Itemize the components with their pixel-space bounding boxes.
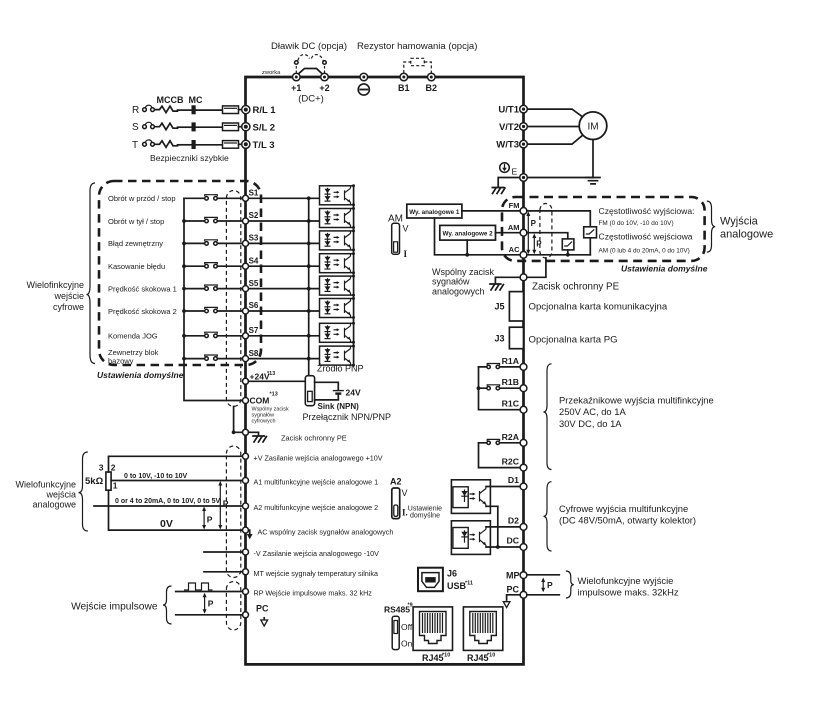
- battery 24V: [333, 390, 344, 392]
- terminal PE node: [520, 274, 527, 281]
- arrow AC down: [249, 530, 250, 533]
- svg-text:sygnałów: sygnałów: [432, 277, 470, 287]
- svg-text:30V DC, do 1A: 30V DC, do 1A: [559, 418, 622, 429]
- terminal S/L2: [242, 123, 250, 131]
- svg-text:R1B: R1B: [502, 377, 519, 387]
- section digital inputs: [26, 181, 319, 434]
- svg-text:V: V: [402, 488, 408, 498]
- wire pot pin3 to +V: [109, 456, 243, 472]
- svg-text:V/T2: V/T2: [499, 122, 519, 133]
- pulse waveform: [184, 583, 213, 590]
- svg-text:P: P: [531, 219, 537, 228]
- svg-text:S8: S8: [249, 349, 259, 358]
- svg-text:COM: COM: [250, 396, 270, 406]
- terminal B2: [428, 73, 436, 81]
- wire D1: [486, 486, 520, 488]
- wire -V stub: [204, 551, 243, 553]
- arrow P pulse: [204, 595, 206, 613]
- terminal V/T2: [520, 123, 528, 131]
- arrow P AM-AC: [533, 236, 535, 253]
- svg-text:T/L 3: T/L 3: [253, 140, 275, 151]
- svg-text:I: I: [404, 249, 408, 259]
- wire MP right: [527, 574, 559, 576]
- svg-text:impulsowe maks. 32kHz: impulsowe maks. 32kHz: [578, 587, 679, 598]
- terminal +1: [293, 73, 301, 81]
- terminal +V: [243, 453, 249, 459]
- relay R1 contacts: [477, 364, 521, 410]
- svg-text:PC: PC: [506, 584, 519, 594]
- brace digital outputs: [544, 482, 552, 551]
- svg-text:+V Zasilanie wejścia analogowe: +V Zasilanie wejścia analogowego +10V: [254, 454, 383, 463]
- wire DC: [486, 546, 520, 548]
- terminal B1: [400, 73, 408, 81]
- svg-text:*13: *13: [267, 371, 275, 377]
- brace analog outputs: [707, 201, 715, 252]
- opto-isolator input S1: [320, 184, 356, 206]
- svg-text:Kasowanie błędu: Kasowanie błędu: [108, 262, 165, 271]
- opto-isolator input S2: [320, 207, 356, 229]
- wire D2: [486, 526, 520, 528]
- switch input S2 row: [108, 211, 320, 226]
- svg-text:cyfrowe: cyfrowe: [53, 302, 84, 312]
- terminal MT: [243, 569, 249, 575]
- motor IM: [579, 112, 607, 140]
- wire PE node to ground: [495, 277, 520, 283]
- svg-text:A1 multifunkcyjne wejście anal: A1 multifunkcyjne wejście analogowe 1: [254, 478, 379, 487]
- terminal PC right: [520, 591, 527, 598]
- svg-text:RJ45: RJ45: [422, 653, 444, 663]
- potentiometer 5k: [106, 472, 111, 490]
- wire PC right: [527, 594, 559, 596]
- terminal R2A: [520, 439, 527, 446]
- terminal S4: [243, 263, 249, 269]
- svg-text:USB: USB: [447, 581, 467, 591]
- svg-text:Opcjonalna karta PG: Opcjonalna karta PG: [529, 335, 618, 346]
- svg-text:*10: *10: [442, 653, 450, 659]
- wire V to motor: [528, 126, 580, 128]
- section analog out: [388, 197, 773, 296]
- phase R input row: [132, 105, 276, 116]
- brace pulse output: [566, 571, 574, 598]
- meter AM: [562, 239, 574, 250]
- svg-text:+1: +1: [291, 83, 301, 93]
- shield capsule analog in: [226, 446, 240, 577]
- wire motor ground: [592, 140, 594, 178]
- svg-text:A2: A2: [390, 477, 402, 487]
- wire box1 emitter to DC bus: [486, 506, 498, 547]
- terminal AM: [520, 229, 527, 236]
- wire AC inside: [527, 254, 590, 256]
- wire E row: [498, 178, 593, 188]
- opto-isolator input S4: [320, 252, 356, 274]
- svg-text:0 to 10V, -10 to 10V: 0 to 10V, -10 to 10V: [124, 473, 187, 480]
- terminal AC: [520, 251, 527, 258]
- terminal S2: [243, 218, 249, 224]
- svg-text:Opcjonalna karta komunikacyjna: Opcjonalna karta komunikacyjna: [529, 302, 668, 313]
- svg-text:Bezpieczniki szybkie: Bezpieczniki szybkie: [150, 153, 229, 163]
- terminal DC: [520, 544, 527, 551]
- wire box2 drop to AC: [466, 240, 468, 255]
- svg-text:B1: B1: [398, 83, 410, 93]
- svg-text:Źródło PNP: Źródło PNP: [317, 364, 364, 374]
- svg-text:R1C: R1C: [502, 399, 520, 409]
- svg-text:-V Zasilanie wejścia analogowe: -V Zasilanie wejścia analogowego -10V: [254, 549, 380, 558]
- svg-text:R2A: R2A: [502, 432, 520, 442]
- meter FM: [584, 227, 597, 238]
- phase S input row: [132, 122, 275, 133]
- arrow P MP-PC: [542, 580, 544, 591]
- svg-text:On: On: [401, 639, 413, 649]
- switch input S3 row: [108, 234, 320, 249]
- switch input S5 row: [108, 279, 320, 294]
- svg-text:AM: AM: [508, 223, 520, 232]
- svg-text:Obrót w tył / stop: Obrót w tył / stop: [108, 217, 164, 226]
- ground terminal symbol: [500, 163, 510, 173]
- svg-text:analogowe: analogowe: [32, 500, 76, 510]
- svg-text:R2C: R2C: [502, 457, 520, 467]
- svg-text:*13: *13: [270, 392, 278, 398]
- wire box1 drop to AC: [435, 218, 521, 255]
- terminal T/L3: [242, 140, 250, 148]
- svg-text:P: P: [207, 515, 213, 525]
- svg-text:Wielofunkcyjne wyjście: Wielofunkcyjne wyjście: [578, 575, 674, 586]
- svg-text:Zacisk ochronny PE: Zacisk ochronny PE: [281, 434, 347, 443]
- svg-text:RP Wejście impulsowe maks. 32: RP Wejście impulsowe maks. 32 kHz: [254, 589, 373, 598]
- svg-text:S/L 2: S/L 2: [253, 122, 276, 133]
- svg-text:Off: Off: [401, 622, 413, 632]
- svg-text:(DC 48V/50mA, otwarty kolektor: (DC 48V/50mA, otwarty kolektor): [559, 515, 696, 526]
- section opto bank: [309, 184, 364, 375]
- svg-text:Wy. analogowe 1: Wy. analogowe 1: [409, 209, 460, 216]
- connector J5: [509, 292, 523, 321]
- section J5 J3 relays: [477, 292, 714, 471]
- ground PE analog: [490, 284, 503, 290]
- svg-text:S4: S4: [249, 256, 259, 265]
- terminal A2: [243, 503, 249, 509]
- connector J3: [509, 327, 523, 349]
- section analog in: [15, 446, 442, 578]
- section inputs RST: [132, 95, 276, 163]
- svg-text:24V: 24V: [346, 387, 361, 397]
- wire switch to battery loop: [315, 382, 339, 400]
- wire shield drain to PE node: [527, 258, 546, 277]
- terminal minus: [360, 73, 368, 81]
- svg-text:Prędkość skokowa 2: Prędkość skokowa 2: [108, 307, 177, 316]
- wire PC left arrow: [507, 595, 520, 600]
- svg-text:J3: J3: [494, 334, 504, 344]
- breaker MCCB R: [155, 106, 178, 113]
- svg-text:DC: DC: [506, 536, 519, 546]
- wire RP: [176, 591, 243, 593]
- opto-isolator input S3: [320, 229, 356, 251]
- wire AM inside to meter: [527, 233, 568, 239]
- svg-text:2: 2: [111, 462, 116, 472]
- svg-text:MCCB: MCCB: [157, 95, 184, 105]
- terminal R1C: [520, 406, 527, 413]
- switch input S1 row: [108, 189, 320, 204]
- svg-text:MT wejście sygnały temperatury: MT wejście sygnały temperatury silnika: [254, 569, 379, 578]
- terminal COM: [243, 398, 249, 404]
- opto-isolator output D1: [451, 480, 490, 514]
- svg-text:Cyfrowe wyjścia multifunkcyjne: Cyfrowe wyjścia multifunkcyjne: [559, 503, 688, 514]
- svg-text:S1: S1: [249, 189, 259, 198]
- terminal R2C: [520, 464, 527, 471]
- section digital out: [451, 475, 696, 554]
- opto-isolator input S6: [320, 297, 356, 319]
- opto-isolator output D2: [451, 521, 490, 555]
- svg-text:wejście: wejście: [53, 291, 84, 301]
- connector J6 USB: [418, 568, 443, 592]
- svg-text:P: P: [547, 580, 553, 590]
- relay R2 contacts: [479, 439, 521, 467]
- svg-text:*10: *10: [487, 653, 495, 659]
- svg-text:MC: MC: [189, 95, 203, 105]
- svg-text:Częstotliwość wejściowa: Częstotliwość wejściowa: [599, 231, 693, 241]
- switch input S7 row: [108, 326, 320, 341]
- svg-text:PC: PC: [256, 604, 269, 614]
- svg-text:3: 3: [99, 462, 104, 472]
- terminal S7: [243, 333, 249, 339]
- terminal MP: [520, 572, 527, 579]
- section pulse: [71, 582, 372, 630]
- terminal R/L1: [242, 106, 250, 114]
- section comm: [384, 568, 679, 663]
- svg-text:Częstotliwość wyjściowa:: Częstotliwość wyjściowa:: [599, 206, 695, 216]
- section top: [262, 41, 477, 105]
- svg-text:V: V: [403, 224, 409, 234]
- svg-text:E: E: [512, 167, 518, 177]
- svg-text:S: S: [132, 122, 139, 133]
- terminal FM: [520, 208, 527, 215]
- box Wy. analogowe 1: [407, 204, 462, 218]
- shield capsule pulse: [226, 582, 240, 630]
- opto-isolator input S8: [320, 345, 356, 367]
- wire AM from box2: [496, 232, 521, 234]
- brace digital inputs: [87, 183, 96, 364]
- svg-text:T: T: [132, 140, 138, 151]
- svg-text:FM: FM: [509, 201, 520, 210]
- wire FM from box1: [462, 210, 520, 212]
- svg-text:AM (0 lub 4 do 20mA, 0 do 10V): AM (0 lub 4 do 20mA, 0 do 10V): [599, 248, 690, 255]
- wire pot pin1 to AC: [109, 490, 243, 530]
- arrow PC open: [263, 618, 265, 620]
- wire shield drain to PE: [234, 407, 243, 433]
- wire opto right collector bus: [353, 186, 355, 365]
- wire S-input common bus: [184, 198, 243, 400]
- section sink source: [243, 371, 392, 443]
- wire W to motor: [528, 135, 584, 145]
- svg-text:analogowych: analogowych: [432, 286, 485, 296]
- wire +24V to switch: [249, 380, 306, 382]
- contactor MC R: [178, 109, 192, 111]
- arrow P A2-0V: [203, 509, 205, 528]
- svg-text:J6: J6: [447, 569, 457, 579]
- fuse R: [223, 106, 239, 114]
- ground motor earth: [586, 178, 600, 184]
- svg-text:*9: *9: [408, 603, 413, 609]
- resistor braking (dashed, optional): [404, 62, 432, 73]
- svg-text:Wyjścia: Wyjścia: [720, 216, 759, 228]
- svg-text:*11: *11: [465, 581, 473, 587]
- svg-text:MP: MP: [506, 570, 520, 580]
- terminal S8: [243, 356, 249, 362]
- svg-text:Wy. analogowe 2: Wy. analogowe 2: [443, 231, 494, 238]
- wire to PE ground: [249, 432, 259, 435]
- svg-text:Ustawienia domyślne: Ustawienia domyślne: [97, 370, 184, 380]
- box Wy. analogowe 2: [440, 225, 496, 240]
- svg-text:Wielofunkcyjne: Wielofunkcyjne: [15, 480, 76, 490]
- svg-text:D2: D2: [508, 516, 519, 526]
- svg-text:B2: B2: [426, 83, 438, 93]
- svg-text:Zacisk ochronny PE: Zacisk ochronny PE: [532, 282, 620, 293]
- svg-text:Przełącznik NPN/PNP: Przełącznik NPN/PNP: [303, 412, 392, 422]
- svg-text:Rezystor hamowania (opcja): Rezystor hamowania (opcja): [357, 41, 477, 52]
- dashed box analog outputs: [502, 197, 705, 261]
- terminal AC: [243, 527, 249, 533]
- svg-text:Wejście impulsowe: Wejście impulsowe: [71, 601, 158, 612]
- svg-text:Sink (NPN): Sink (NPN): [318, 402, 360, 411]
- svg-text:RS485: RS485: [384, 605, 410, 615]
- svg-text:1: 1: [113, 481, 118, 491]
- svg-text:Wielofinkcyjne: Wielofinkcyjne: [26, 280, 84, 290]
- svg-text:domyślne: domyślne: [410, 512, 440, 519]
- terminal -V: [243, 549, 249, 555]
- switch input S6 row: [108, 301, 320, 316]
- section motor: [492, 105, 607, 194]
- svg-text:+2: +2: [319, 83, 329, 93]
- svg-text:Ustawienia domyślne: Ustawienia domyślne: [621, 264, 708, 274]
- brace pulse input: [163, 586, 172, 624]
- wire FM inside to meter: [527, 211, 590, 227]
- arrow P FM-AC: [527, 214, 529, 253]
- terminal D2: [520, 524, 527, 531]
- terminal D1: [520, 483, 527, 490]
- jumper zworka bridge: [296, 69, 325, 77]
- terminal S6: [243, 308, 249, 314]
- inductor L1 DC reactor (dashed, optional): [295, 65, 297, 74]
- opto-isolator input S5: [320, 275, 356, 297]
- svg-text:Zewnetrzy blok: Zewnetrzy blok: [108, 348, 159, 357]
- terminal W/T3: [520, 140, 528, 148]
- svg-text:5kΩ: 5kΩ: [85, 476, 104, 487]
- svg-text:R/L 1: R/L 1: [253, 105, 277, 116]
- svg-text:cyfrowych: cyfrowych: [252, 419, 276, 425]
- svg-text:R: R: [132, 105, 139, 116]
- svg-text:IM: IM: [587, 122, 598, 133]
- ground PE left: [253, 436, 266, 442]
- svg-text:0 or 4 to 20mA, 0 to 10V, 0 to: 0 or 4 to 20mA, 0 to 10V, 0 to 5V: [115, 498, 221, 505]
- wire PC: [176, 614, 243, 616]
- svg-text:AC wspólny zacisk sygnałów ana: AC wspólny zacisk sygnałów analogowych: [258, 527, 394, 536]
- svg-text:Dławik DC (opcja): Dławik DC (opcja): [271, 41, 347, 52]
- svg-text:wejścia: wejścia: [45, 490, 76, 500]
- svg-text:J5: J5: [494, 302, 504, 312]
- svg-text:250V AC, do 1A: 250V AC, do 1A: [559, 406, 626, 417]
- dashed box multifunction digital inputs: [99, 181, 261, 365]
- svg-text:P: P: [208, 599, 214, 609]
- connector RJ45 2: [463, 607, 502, 651]
- terminal RP: [243, 589, 249, 595]
- shield capsule analog out: [540, 204, 552, 259]
- connector RJ45 1: [413, 607, 452, 651]
- terminal S5: [243, 286, 249, 292]
- svg-text:S5: S5: [249, 279, 259, 288]
- svg-text:Prędkość skokowa 1: Prędkość skokowa 1: [108, 284, 177, 293]
- svg-text:S6: S6: [249, 301, 259, 310]
- svg-text:bazowy: bazowy: [108, 357, 134, 366]
- svg-text:D1: D1: [508, 475, 519, 485]
- terminal PC left: [243, 612, 249, 618]
- wire A2 input: [94, 505, 243, 507]
- svg-text:U/T1: U/T1: [498, 105, 519, 116]
- svg-text:Wspólny zacisk: Wspólny zacisk: [432, 267, 495, 277]
- svg-text:analogowe: analogowe: [720, 229, 773, 241]
- brace relay outputs: [544, 364, 552, 470]
- terminal U/T1: [520, 105, 528, 113]
- arrow P A1-0V: [219, 483, 221, 528]
- svg-text:Obrót w przód / stop: Obrót w przód / stop: [108, 194, 176, 203]
- svg-text:W/T3: W/T3: [496, 140, 519, 151]
- wire main enclosure bus: [246, 77, 524, 664]
- switch input S8 row: [108, 348, 320, 366]
- svg-text:Błąd zewnętrzny: Błąd zewnętrzny: [108, 239, 163, 248]
- switch NPN/PNP: [305, 376, 314, 406]
- terminal S3: [243, 240, 249, 246]
- terminal +2: [321, 73, 329, 81]
- terminal R1A: [520, 364, 527, 371]
- svg-text:S2: S2: [249, 211, 259, 220]
- terminal R1B: [520, 385, 527, 392]
- wire pot pin2 to A1: [111, 480, 243, 482]
- svg-text:AC: AC: [509, 245, 520, 254]
- svg-text:RJ45: RJ45: [467, 653, 489, 663]
- svg-text:Przekaźnikowe wyjścia multifin: Przekaźnikowe wyjścia multifinkcyjne: [559, 395, 714, 406]
- opto-isolator input S7: [320, 322, 356, 344]
- brace analog inputs: [79, 452, 88, 531]
- switch input S4 row: [108, 256, 320, 271]
- svg-text:(DC+): (DC+): [298, 94, 324, 105]
- phase T input row: [132, 140, 275, 151]
- svg-text:A2 multifunkcyjne wejście anal: A2 multifunkcyjne wejście analogowe 2: [254, 503, 379, 512]
- wire opto left bus: [308, 198, 310, 375]
- wire MT stub: [204, 571, 243, 573]
- terminal A1: [243, 478, 249, 484]
- terminal E: [520, 174, 528, 182]
- svg-text:Komenda JOG: Komenda JOG: [108, 332, 158, 341]
- svg-text:S7: S7: [249, 326, 259, 335]
- svg-text:zworka: zworka: [262, 70, 281, 76]
- svg-text:P: P: [536, 239, 542, 248]
- shield capsule digital inputs: [226, 191, 240, 407]
- terminal +24V: [243, 378, 249, 384]
- svg-text:0V: 0V: [160, 518, 173, 530]
- svg-text:R1A: R1A: [502, 356, 520, 366]
- svg-text:S3: S3: [249, 234, 259, 243]
- wire U to motor: [528, 109, 584, 117]
- ground PE left of E: [492, 188, 505, 194]
- terminal PE shield: [243, 429, 249, 435]
- svg-text:FM (0 do 10V, -10 do 10V): FM (0 do 10V, -10 do 10V): [599, 220, 674, 227]
- terminal S1: [243, 195, 249, 201]
